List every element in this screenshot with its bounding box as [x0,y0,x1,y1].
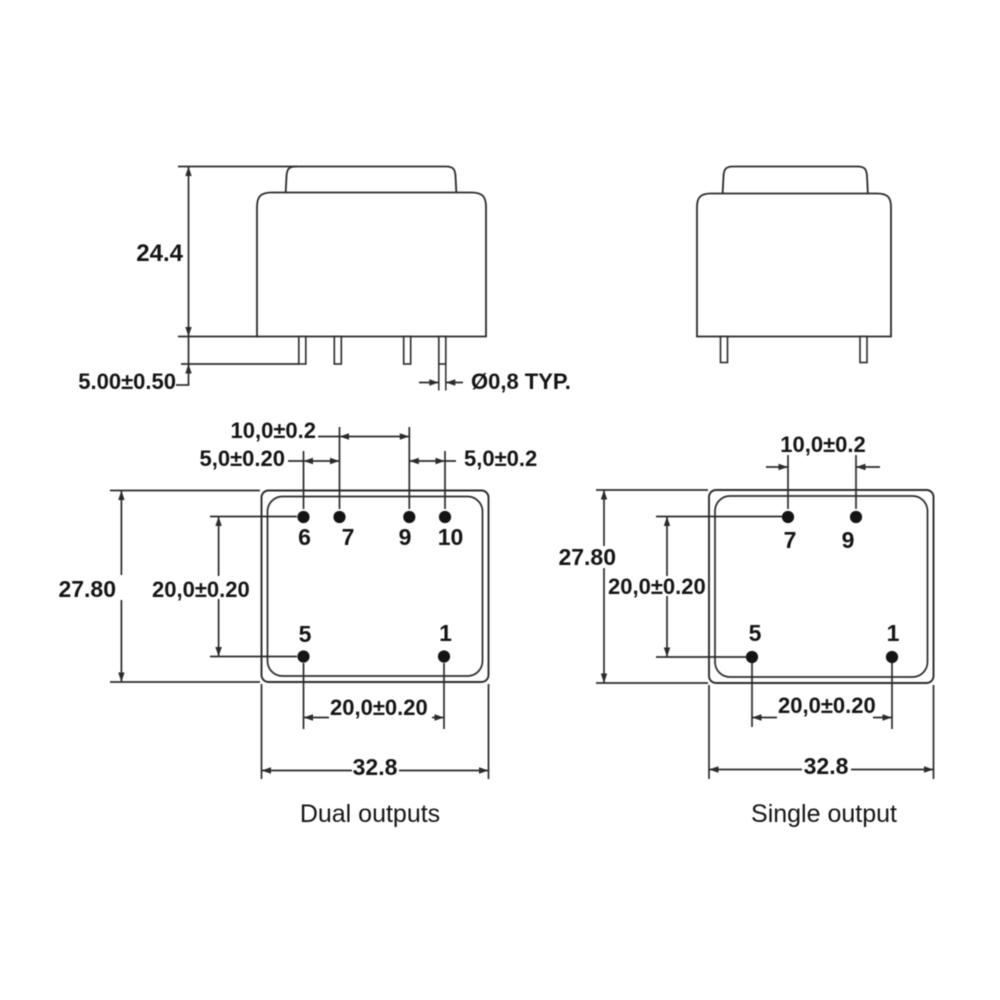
svg-text:9: 9 [842,527,855,553]
svg-text:20,0±0.20: 20,0±0.20 [330,695,428,720]
svg-text:10: 10 [438,524,464,550]
svg-text:5: 5 [749,620,762,646]
svg-text:20,0±0.20: 20,0±0.20 [608,574,706,599]
svg-text:20,0±0.20: 20,0±0.20 [152,577,250,602]
svg-text:7: 7 [342,524,355,550]
svg-text:Single output: Single output [751,800,897,828]
svg-text:32.8: 32.8 [353,754,398,780]
svg-text:5,0±0.20: 5,0±0.20 [200,446,285,471]
svg-text:10,0±0.2: 10,0±0.2 [231,418,316,443]
svg-text:10,0±0.2: 10,0±0.2 [780,432,865,457]
svg-text:5,0±0.2: 5,0±0.2 [464,446,537,471]
svg-text:20,0±0.20: 20,0±0.20 [778,693,876,718]
svg-text:27.80: 27.80 [558,544,616,570]
svg-text:24.4: 24.4 [136,240,183,267]
svg-text:32.8: 32.8 [804,753,849,779]
svg-text:5: 5 [299,621,312,647]
svg-text:Dual outputs: Dual outputs [300,800,440,828]
svg-text:1: 1 [439,620,452,646]
svg-text:27.80: 27.80 [58,576,116,602]
svg-text:7: 7 [784,527,797,553]
svg-text:1: 1 [887,620,900,646]
svg-text:5.00±0.50: 5.00±0.50 [78,369,176,394]
svg-text:9: 9 [399,524,412,550]
svg-text:Ø0,8 TYP.: Ø0,8 TYP. [471,369,571,394]
svg-text:6: 6 [298,524,311,550]
